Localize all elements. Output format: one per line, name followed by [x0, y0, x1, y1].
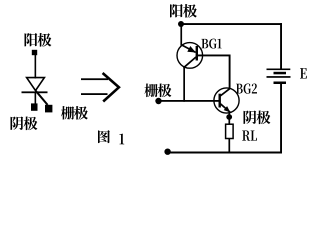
wire cathode lead: [35, 93, 37, 104]
node label 栅极 (gate, left figure): [61, 106, 88, 120]
node label 栅极 (gate, right figure): [144, 84, 171, 98]
thyristor V1 triangle: [27, 78, 45, 91]
thyristor V1 cathode bar: [22, 91, 48, 93]
wire cathode node to resistor: [228, 120, 230, 125]
resistor RL body: [226, 124, 234, 138]
node label 阳极 (anode, right figure): [170, 4, 197, 18]
wire BG1 base to BG2 collector: [198, 55, 230, 88]
cathode terminal square (left figure): [31, 103, 38, 110]
label BG1: [201, 39, 221, 49]
transistor BG2 collector diagonal: [220, 89, 229, 96]
transistor BG1 base bar: [196, 46, 198, 61]
node label 阳极 (anode, left figure): [25, 33, 52, 47]
transistor BG2 circle: [214, 88, 239, 113]
wire gate rail: [159, 100, 219, 102]
transistor BG2 base bar: [219, 94, 221, 108]
cathode output terminal dot (bottom left): [164, 149, 170, 155]
wire gate lead (diagonal): [36, 91, 48, 105]
wire resistor to bottom rail: [228, 139, 230, 153]
wire BG2 emitter to cathode node: [228, 112, 230, 117]
wire right rail lower: [280, 84, 282, 153]
gate terminal square (left figure): [45, 105, 52, 113]
battery E plate short 1: [274, 72, 287, 75]
gate terminal dot: [155, 98, 161, 104]
transistor BG1 circle: [177, 43, 203, 69]
wire top rail: [181, 23, 282, 25]
transistor BG1 emitter with arrow (PNP): [181, 45, 196, 53]
wire anode to BG1 emitter: [180, 24, 182, 46]
cathode junction dot: [226, 114, 232, 120]
node label 阴极 (cathode, right figure): [244, 111, 271, 125]
equivalence arrow (double line) top stroke: [81, 78, 108, 80]
battery E plate long 1: [267, 69, 291, 71]
equivalence arrow head: [103, 73, 119, 102]
wire bottom rail: [168, 152, 283, 154]
junction dot anode node: [178, 21, 184, 27]
caption 图 1: [98, 130, 124, 144]
transistor BG2 emitter with arrow (NPN): [220, 104, 230, 113]
wire BG1 collector down to gate rail: [183, 67, 185, 102]
wire right rail upper: [280, 23, 282, 69]
transistor BG1 collector diagonal: [184, 57, 197, 68]
equivalence arrow bottom stroke: [81, 93, 108, 95]
node label 阴极 (cathode, left figure): [11, 117, 38, 131]
battery E plate long 2: [267, 76, 291, 78]
label E: [300, 68, 307, 78]
label BG2: [236, 83, 257, 93]
wire anode lead: [35, 55, 37, 79]
anode terminal square (left figure): [32, 50, 37, 55]
label RL: [242, 131, 257, 141]
battery E plate short 2: [274, 82, 287, 85]
